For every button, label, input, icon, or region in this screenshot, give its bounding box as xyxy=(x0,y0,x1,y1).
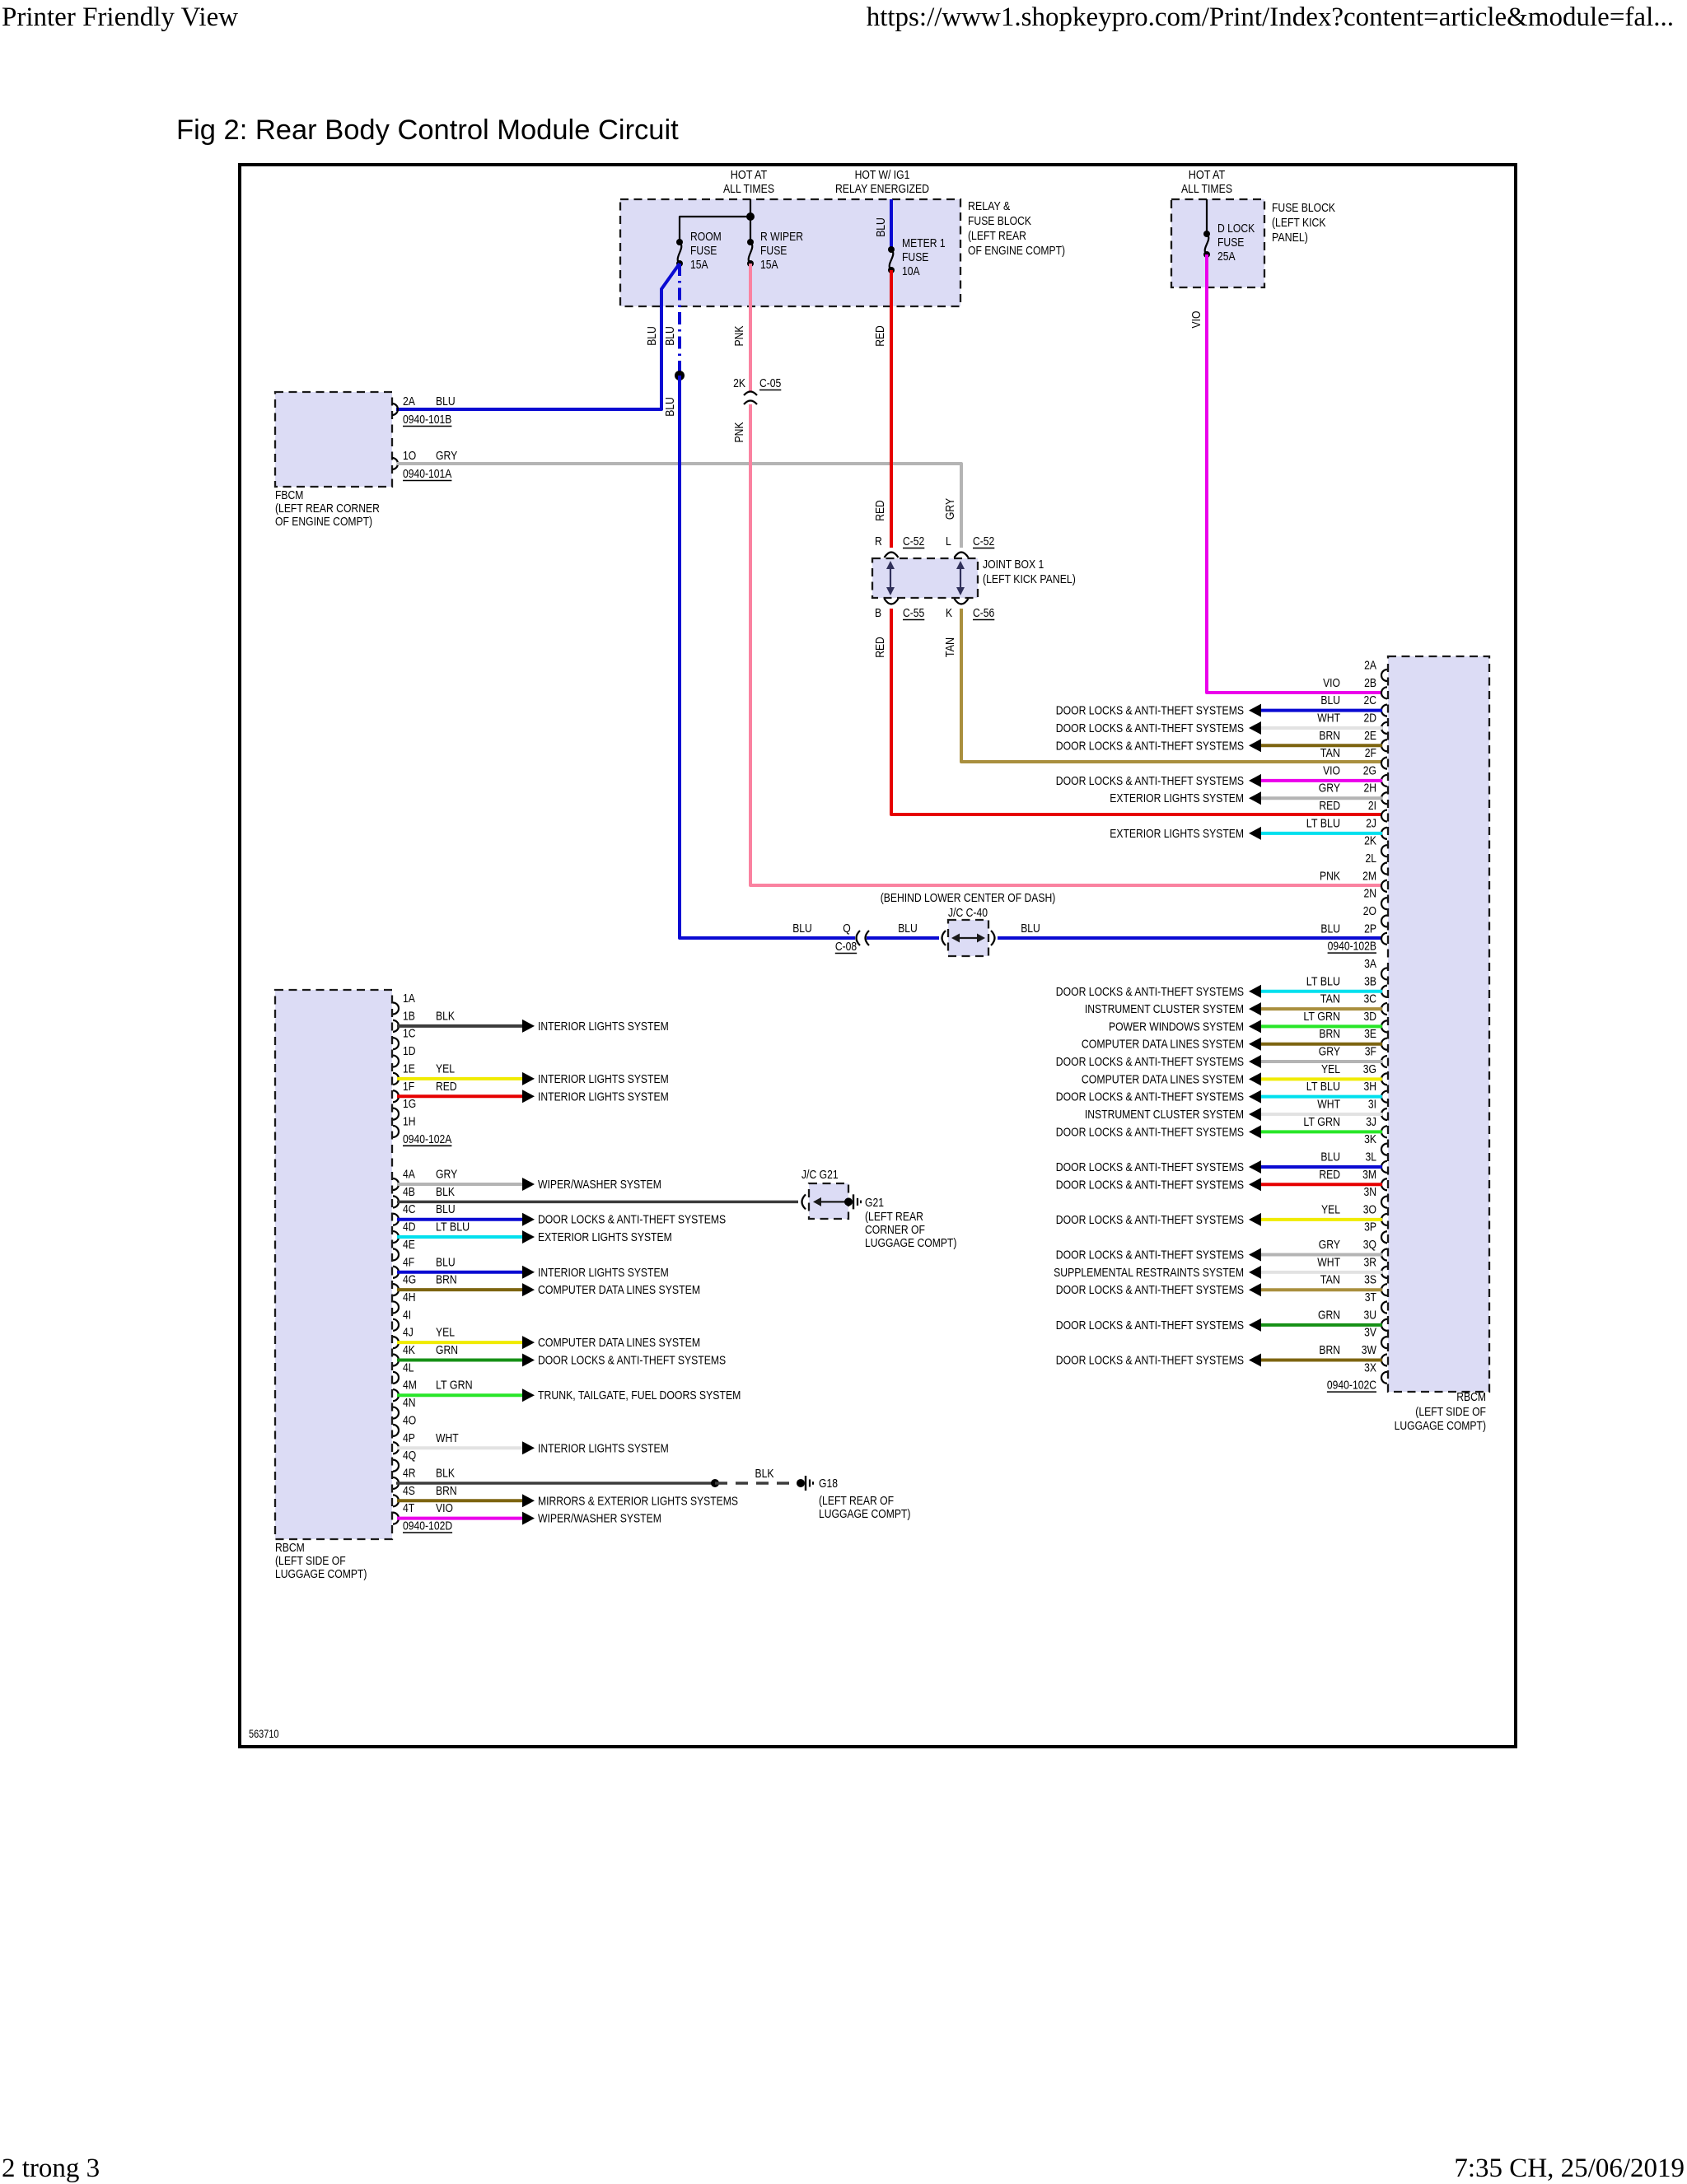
svg-text:(BEHIND LOWER CENTER OF DASH): (BEHIND LOWER CENTER OF DASH) xyxy=(881,891,1056,905)
svg-text:2K: 2K xyxy=(1364,834,1376,848)
svg-text:1H: 1H xyxy=(403,1114,416,1128)
svg-text:3C: 3C xyxy=(1364,992,1377,1006)
svg-text:2M: 2M xyxy=(1362,869,1376,883)
svg-text:WIPER/WASHER SYSTEM: WIPER/WASHER SYSTEM xyxy=(538,1178,661,1192)
svg-text:1B: 1B xyxy=(403,1009,415,1023)
svg-text:FUSE: FUSE xyxy=(760,244,787,258)
wire BLU long vertical to J/C C-40 run xyxy=(680,376,855,938)
svg-text:LUGGAGE COMPT): LUGGAGE COMPT) xyxy=(865,1236,956,1250)
svg-text:GRY: GRY xyxy=(1319,1238,1340,1252)
svg-text:INSTRUMENT CLUSTER SYSTEM: INSTRUMENT CLUSTER SYSTEM xyxy=(1085,1002,1244,1016)
svg-text:BLK: BLK xyxy=(436,1185,455,1199)
svg-text:1D: 1D xyxy=(403,1044,416,1058)
svg-text:OF ENGINE COMPT): OF ENGINE COMPT) xyxy=(275,515,372,529)
J/C G21 internal ground arrow xyxy=(816,1201,846,1202)
svg-text:G21: G21 xyxy=(865,1196,884,1210)
svg-text:4F: 4F xyxy=(403,1255,414,1269)
svg-text:BLU: BLU xyxy=(1320,922,1340,936)
svg-text:FUSE BLOCK: FUSE BLOCK xyxy=(1272,201,1335,215)
diagram frame xyxy=(240,165,1516,1747)
svg-text:3P: 3P xyxy=(1364,1220,1376,1234)
svg-text:2F: 2F xyxy=(1365,746,1376,760)
svg-text:3U: 3U xyxy=(1364,1308,1377,1322)
wire PNK upper segment xyxy=(749,264,752,392)
svg-text:C-55: C-55 xyxy=(903,606,924,620)
svg-text:1C: 1C xyxy=(403,1027,416,1041)
svg-text:BLU: BLU xyxy=(663,326,677,346)
svg-text:RED: RED xyxy=(873,500,887,521)
svg-text:BRN: BRN xyxy=(1319,1343,1340,1357)
svg-text:2J: 2J xyxy=(1366,816,1376,830)
svg-text:3S: 3S xyxy=(1364,1273,1376,1287)
svg-text:BLU: BLU xyxy=(436,1255,456,1269)
svg-text:10A: 10A xyxy=(902,264,920,278)
svg-text:RED: RED xyxy=(1319,799,1340,813)
fuse D LOCK FUSE 25A xyxy=(1203,231,1210,237)
svg-text:BRN: BRN xyxy=(436,1273,457,1287)
svg-text:DOOR LOCKS & ANTI-THEFT SYSTEM: DOOR LOCKS & ANTI-THEFT SYSTEMS xyxy=(1056,1055,1244,1069)
svg-text:GRN: GRN xyxy=(436,1343,458,1357)
svg-text:TAN: TAN xyxy=(1320,1273,1340,1287)
svg-text:J/C G21: J/C G21 xyxy=(801,1168,839,1182)
svg-text:1G: 1G xyxy=(403,1097,416,1111)
svg-text:BLU: BLU xyxy=(898,922,918,936)
svg-text:GRY: GRY xyxy=(1319,1045,1340,1059)
wire 4R BLK solid segment xyxy=(396,1482,715,1485)
svg-text:DOOR LOCKS & ANTI-THEFT SYSTEM: DOOR LOCKS & ANTI-THEFT SYSTEMS xyxy=(1056,1090,1244,1104)
svg-text:(LEFT SIDE OF: (LEFT SIDE OF xyxy=(275,1554,346,1568)
svg-text:563710: 563710 xyxy=(249,1728,279,1740)
svg-text:3V: 3V xyxy=(1364,1326,1376,1340)
svg-text:3F: 3F xyxy=(1365,1045,1376,1059)
svg-text:3A: 3A xyxy=(1364,957,1376,971)
svg-text:YEL: YEL xyxy=(1321,1062,1340,1076)
wire BLU dash-dot branch xyxy=(678,264,681,376)
wire 4R BLK dashed segment xyxy=(715,1482,797,1485)
wire RED lower run to pin 2I xyxy=(891,609,1382,814)
svg-text:RBCM: RBCM xyxy=(275,1541,305,1555)
fuse METER 1 FUSE 10A xyxy=(888,246,895,253)
svg-text:BLU: BLU xyxy=(874,217,888,237)
header: page title xyxy=(2,2,238,33)
svg-text:3E: 3E xyxy=(1364,1027,1376,1041)
svg-text:BRN: BRN xyxy=(1319,1027,1340,1041)
svg-text:DOOR LOCKS & ANTI-THEFT SYSTEM: DOOR LOCKS & ANTI-THEFT SYSTEMS xyxy=(538,1213,726,1227)
svg-text:4E: 4E xyxy=(403,1238,415,1252)
svg-text:TAN: TAN xyxy=(1320,746,1340,760)
wire BLU solid from ROOM fuse to FBCM 2A xyxy=(396,264,680,409)
svg-text:INTERIOR LIGHTS SYSTEM: INTERIOR LIGHTS SYSTEM xyxy=(538,1072,669,1086)
svg-text:1O: 1O xyxy=(403,449,416,463)
svg-text:J/C C-40: J/C C-40 xyxy=(948,906,988,920)
svg-text:3B: 3B xyxy=(1364,974,1376,988)
svg-text:LUGGAGE COMPT): LUGGAGE COMPT) xyxy=(1395,1419,1486,1433)
svg-text:3D: 3D xyxy=(1364,1010,1377,1024)
svg-text:DOOR LOCKS & ANTI-THEFT SYSTEM: DOOR LOCKS & ANTI-THEFT SYSTEMS xyxy=(1056,1353,1244,1367)
ground G21 symbol xyxy=(844,1197,853,1206)
svg-text:0940-102A: 0940-102A xyxy=(403,1132,451,1146)
svg-text:2C: 2C xyxy=(1364,693,1377,707)
svg-text:4D: 4D xyxy=(403,1220,416,1234)
svg-text:BLU: BLU xyxy=(1320,693,1340,707)
svg-text:DOOR LOCKS & ANTI-THEFT SYSTEM: DOOR LOCKS & ANTI-THEFT SYSTEMS xyxy=(1056,1318,1244,1332)
inline connector C-08 xyxy=(857,931,861,945)
svg-text:4P: 4P xyxy=(403,1431,415,1445)
connector arc B C-55 xyxy=(885,599,899,604)
svg-text:OF ENGINE COMPT): OF ENGINE COMPT) xyxy=(968,244,1065,258)
svg-text:D LOCK: D LOCK xyxy=(1217,222,1255,236)
svg-text:0940-102D: 0940-102D xyxy=(403,1519,452,1533)
svg-text:3W: 3W xyxy=(1362,1343,1377,1357)
svg-text:LT BLU: LT BLU xyxy=(436,1220,470,1234)
svg-text:BLK: BLK xyxy=(436,1466,455,1480)
svg-text:ALL TIMES: ALL TIMES xyxy=(1181,182,1232,196)
svg-text:LT BLU: LT BLU xyxy=(1306,1080,1340,1094)
joint box internal arrow (right) xyxy=(960,562,961,594)
svg-text:(LEFT SIDE OF: (LEFT SIDE OF xyxy=(1415,1405,1486,1419)
svg-text:K: K xyxy=(946,606,952,620)
svg-text:GRN: GRN xyxy=(1318,1308,1340,1322)
wire RED upper segment to joint box xyxy=(890,270,893,548)
svg-text:(LEFT KICK PANEL): (LEFT KICK PANEL) xyxy=(983,572,1076,586)
svg-text:RBCM: RBCM xyxy=(1456,1390,1486,1404)
svg-text:2G: 2G xyxy=(1363,763,1376,777)
svg-text:METER 1: METER 1 xyxy=(902,236,946,250)
svg-text:BLU: BLU xyxy=(436,394,456,408)
svg-text:3T: 3T xyxy=(1365,1290,1376,1304)
svg-text:15A: 15A xyxy=(690,258,708,272)
wire hot feed into kick fuse block xyxy=(1206,199,1208,234)
svg-text:DOOR LOCKS & ANTI-THEFT SYSTEM: DOOR LOCKS & ANTI-THEFT SYSTEMS xyxy=(1056,704,1244,718)
joint box 1 xyxy=(872,558,978,598)
svg-text:FUSE: FUSE xyxy=(902,250,928,264)
svg-text:3Q: 3Q xyxy=(1363,1238,1376,1252)
svg-text:BRN: BRN xyxy=(436,1484,457,1498)
svg-text:4O: 4O xyxy=(403,1413,416,1427)
svg-text:BLU: BLU xyxy=(645,326,659,346)
svg-text:4C: 4C xyxy=(403,1202,416,1216)
svg-text:4H: 4H xyxy=(403,1290,416,1304)
svg-text:VIO: VIO xyxy=(436,1501,453,1515)
svg-text:C-56: C-56 xyxy=(973,606,994,620)
fuse block (left kick panel) box xyxy=(1171,199,1264,287)
svg-text:2B: 2B xyxy=(1364,676,1376,690)
svg-text:GRY: GRY xyxy=(436,1168,457,1182)
svg-text:INTERIOR LIGHTS SYSTEM: INTERIOR LIGHTS SYSTEM xyxy=(538,1090,669,1104)
svg-text:RED: RED xyxy=(1319,1168,1340,1182)
svg-text:RELAY ENERGIZED: RELAY ENERGIZED xyxy=(835,182,929,196)
svg-text:CORNER OF: CORNER OF xyxy=(865,1223,925,1237)
footer: page number xyxy=(2,2154,100,2184)
J/C G21 box xyxy=(809,1183,848,1219)
inline connector C-05 on PNK wire xyxy=(744,392,757,396)
svg-text:RED: RED xyxy=(436,1080,457,1094)
connector arc K C-56 xyxy=(955,599,969,604)
junction dot BLU splice xyxy=(675,371,685,380)
svg-text:LUGGAGE COMPT): LUGGAGE COMPT) xyxy=(819,1507,910,1521)
junction node feed split xyxy=(746,212,755,221)
svg-text:JOINT BOX 1: JOINT BOX 1 xyxy=(983,558,1044,572)
svg-text:1F: 1F xyxy=(403,1080,414,1094)
svg-text:BLU: BLU xyxy=(663,397,677,417)
fuse R WIPER FUSE 15A xyxy=(747,239,754,245)
svg-text:GRY: GRY xyxy=(1319,782,1340,796)
svg-text:4N: 4N xyxy=(403,1396,416,1410)
svg-text:(LEFT KICK: (LEFT KICK xyxy=(1272,216,1326,230)
svg-text:RED: RED xyxy=(873,637,887,658)
J/C C-40 box xyxy=(948,920,988,956)
svg-text:4T: 4T xyxy=(403,1501,414,1515)
svg-text:DOOR LOCKS & ANTI-THEFT SYSTEM: DOOR LOCKS & ANTI-THEFT SYSTEMS xyxy=(1056,985,1244,999)
wire crossing patch PNK over GRY xyxy=(749,455,752,472)
svg-text:TAN: TAN xyxy=(1320,992,1340,1006)
svg-text:(LEFT REAR CORNER: (LEFT REAR CORNER xyxy=(275,502,380,516)
FBCM pin 2A arc xyxy=(392,404,398,415)
svg-text:DOOR LOCKS & ANTI-THEFT SYSTEM: DOOR LOCKS & ANTI-THEFT SYSTEMS xyxy=(1056,1125,1244,1139)
footer: date xyxy=(1454,2154,1685,2184)
svg-text:HOT W/ IG1: HOT W/ IG1 xyxy=(855,168,910,182)
header: URL xyxy=(867,2,1674,33)
svg-text:DOOR LOCKS & ANTI-THEFT SYSTEM: DOOR LOCKS & ANTI-THEFT SYSTEMS xyxy=(1056,1178,1244,1192)
wire BLU into METER 1 fuse xyxy=(890,199,893,250)
wire GRY from FBCM 1O to joint box xyxy=(397,464,961,548)
svg-text:LT GRN: LT GRN xyxy=(1303,1010,1340,1024)
svg-text:L: L xyxy=(946,534,951,548)
svg-text:4I: 4I xyxy=(403,1308,411,1322)
connector arc R C-52 xyxy=(885,553,899,558)
svg-text:PNK: PNK xyxy=(732,422,746,443)
svg-text:Q: Q xyxy=(843,922,851,936)
svg-text:LT BLU: LT BLU xyxy=(1306,816,1340,830)
joint box internal arrow (left) xyxy=(890,562,891,594)
svg-text:(LEFT REAR OF: (LEFT REAR OF xyxy=(819,1494,894,1508)
svg-text:HOT AT: HOT AT xyxy=(731,168,768,182)
wire BLU middle segment xyxy=(867,936,939,940)
J/C C-40 entry arc xyxy=(942,931,946,945)
svg-text:0940-102C: 0940-102C xyxy=(1327,1379,1376,1393)
svg-text:C-05: C-05 xyxy=(759,376,781,390)
svg-text:2O: 2O xyxy=(1363,904,1376,918)
svg-text:POWER WINDOWS SYSTEM: POWER WINDOWS SYSTEM xyxy=(1109,1020,1244,1034)
svg-text:4A: 4A xyxy=(403,1168,415,1182)
figure title xyxy=(176,114,679,147)
svg-text:HOT AT: HOT AT xyxy=(1189,168,1226,182)
svg-text:LUGGAGE COMPT): LUGGAGE COMPT) xyxy=(275,1567,367,1581)
wire crossing patch RED over GRY xyxy=(890,455,893,472)
RBCM right connector box xyxy=(1388,656,1489,1392)
svg-text:0940-102B: 0940-102B xyxy=(1328,940,1376,954)
svg-text:4S: 4S xyxy=(403,1484,415,1498)
svg-text:VIO: VIO xyxy=(1189,311,1203,329)
J/C C-40 exit arc xyxy=(991,931,995,945)
svg-text:WHT: WHT xyxy=(1317,1255,1340,1269)
svg-text:COMPUTER DATA LINES SYSTEM: COMPUTER DATA LINES SYSTEM xyxy=(538,1283,700,1297)
svg-text:SUPPLEMENTAL RESTRAINTS SYSTEM: SUPPLEMENTAL RESTRAINTS SYSTEM xyxy=(1054,1266,1244,1280)
svg-text:YEL: YEL xyxy=(436,1326,455,1340)
svg-text:PNK: PNK xyxy=(1320,869,1340,883)
J/C G21 entry arc xyxy=(802,1194,806,1209)
svg-text:G18: G18 xyxy=(819,1477,838,1491)
svg-text:EXTERIOR LIGHTS SYSTEM: EXTERIOR LIGHTS SYSTEM xyxy=(1110,827,1244,841)
svg-text:WIPER/WASHER SYSTEM: WIPER/WASHER SYSTEM xyxy=(538,1512,661,1526)
wire branch to ROOM fuse xyxy=(680,217,750,242)
wire 4B BLK to J/C G21 xyxy=(397,1201,798,1204)
svg-text:R WIPER: R WIPER xyxy=(760,230,803,244)
svg-text:3N: 3N xyxy=(1364,1185,1377,1199)
relay & fuse block box xyxy=(620,199,960,306)
svg-text:2D: 2D xyxy=(1364,711,1377,725)
svg-text:ROOM: ROOM xyxy=(690,230,722,244)
svg-text:BLK: BLK xyxy=(436,1009,455,1023)
svg-text:INTERIOR LIGHTS SYSTEM: INTERIOR LIGHTS SYSTEM xyxy=(538,1441,669,1455)
connector arc L C-52 xyxy=(955,553,969,558)
svg-text:3G: 3G xyxy=(1363,1062,1376,1076)
svg-text:LT GRN: LT GRN xyxy=(436,1379,473,1393)
wire TAN from joint box to pin 2F xyxy=(961,609,1382,762)
svg-text:1E: 1E xyxy=(403,1062,415,1076)
svg-text:EXTERIOR LIGHTS SYSTEM: EXTERIOR LIGHTS SYSTEM xyxy=(1110,791,1244,805)
svg-text:BLU: BLU xyxy=(436,1202,456,1216)
svg-text:4Q: 4Q xyxy=(403,1449,416,1463)
svg-text:PANEL): PANEL) xyxy=(1272,231,1308,245)
svg-text:2K: 2K xyxy=(733,376,745,390)
svg-text:3I: 3I xyxy=(1368,1098,1376,1112)
svg-text:2E: 2E xyxy=(1364,729,1376,743)
svg-text:3L: 3L xyxy=(1366,1150,1377,1164)
svg-text:FUSE: FUSE xyxy=(1217,236,1244,250)
svg-text:INTERIOR LIGHTS SYSTEM: INTERIOR LIGHTS SYSTEM xyxy=(538,1020,669,1034)
wire hot feed into fuse block xyxy=(750,199,751,242)
svg-text:3J: 3J xyxy=(1366,1115,1376,1129)
svg-text:DOOR LOCKS & ANTI-THEFT SYSTEM: DOOR LOCKS & ANTI-THEFT SYSTEMS xyxy=(1056,1283,1244,1297)
svg-text:3R: 3R xyxy=(1364,1255,1377,1269)
svg-text:DOOR LOCKS & ANTI-THEFT SYSTEM: DOOR LOCKS & ANTI-THEFT SYSTEMS xyxy=(1056,1248,1244,1262)
svg-text:C-08: C-08 xyxy=(835,940,857,954)
svg-text:TRUNK, TAILGATE, FUEL DOORS SY: TRUNK, TAILGATE, FUEL DOORS SYSTEM xyxy=(538,1388,741,1402)
svg-text:BLU: BLU xyxy=(1320,1150,1340,1164)
svg-text:2A: 2A xyxy=(403,394,415,408)
svg-text:4G: 4G xyxy=(403,1273,416,1287)
wire PNK lower run to pin 2M xyxy=(750,404,1382,885)
svg-text:1A: 1A xyxy=(403,992,415,1006)
svg-text:4R: 4R xyxy=(403,1466,416,1480)
svg-text:3M: 3M xyxy=(1362,1168,1376,1182)
svg-text:2H: 2H xyxy=(1364,782,1377,796)
wire crossing patch BLU over GRY xyxy=(678,455,681,472)
svg-text:15A: 15A xyxy=(760,258,778,272)
svg-text:PNK: PNK xyxy=(732,326,746,347)
svg-text:DOOR LOCKS & ANTI-THEFT SYSTEM: DOOR LOCKS & ANTI-THEFT SYSTEMS xyxy=(1056,1160,1244,1174)
svg-text:4L: 4L xyxy=(403,1360,414,1374)
svg-text:GRY: GRY xyxy=(943,498,957,520)
svg-text:MIRRORS & EXTERIOR LIGHTS SYST: MIRRORS & EXTERIOR LIGHTS SYSTEMS xyxy=(538,1494,738,1508)
svg-text:(LEFT REAR: (LEFT REAR xyxy=(968,229,1026,243)
svg-text:VIO: VIO xyxy=(1323,676,1340,690)
svg-text:COMPUTER DATA LINES SYSTEM: COMPUTER DATA LINES SYSTEM xyxy=(538,1336,700,1350)
svg-text:BLU: BLU xyxy=(792,922,812,936)
svg-text:INTERIOR LIGHTS SYSTEM: INTERIOR LIGHTS SYSTEM xyxy=(538,1266,669,1280)
svg-text:B: B xyxy=(875,606,881,620)
svg-text:2P: 2P xyxy=(1364,922,1376,936)
svg-text:RED: RED xyxy=(873,325,887,347)
wire BLU to pin 2P xyxy=(998,936,1382,940)
svg-text:4M: 4M xyxy=(403,1379,417,1393)
svg-text:2L: 2L xyxy=(1366,852,1377,866)
svg-text:3K: 3K xyxy=(1364,1132,1376,1146)
svg-text:COMPUTER DATA LINES SYSTEM: COMPUTER DATA LINES SYSTEM xyxy=(1082,1038,1244,1052)
svg-text:BRN: BRN xyxy=(1319,729,1340,743)
fuse ROOM FUSE 15A xyxy=(676,239,683,245)
svg-text:INSTRUMENT CLUSTER SYSTEM: INSTRUMENT CLUSTER SYSTEM xyxy=(1085,1108,1244,1122)
svg-text:BLU: BLU xyxy=(1021,922,1040,936)
svg-text:4B: 4B xyxy=(403,1185,415,1199)
svg-text:FBCM: FBCM xyxy=(275,488,303,502)
svg-text:3H: 3H xyxy=(1364,1080,1377,1094)
svg-text:EXTERIOR LIGHTS SYSTEM: EXTERIOR LIGHTS SYSTEM xyxy=(538,1230,672,1244)
svg-text:C-52: C-52 xyxy=(973,534,994,548)
svg-text:DOOR LOCKS & ANTI-THEFT SYSTEM: DOOR LOCKS & ANTI-THEFT SYSTEMS xyxy=(538,1354,726,1368)
svg-text:ALL TIMES: ALL TIMES xyxy=(723,182,774,196)
svg-text:C-52: C-52 xyxy=(903,534,924,548)
svg-text:2I: 2I xyxy=(1368,799,1376,813)
svg-text:DOOR LOCKS & ANTI-THEFT SYSTEM: DOOR LOCKS & ANTI-THEFT SYSTEMS xyxy=(1056,721,1244,735)
svg-text:LT BLU: LT BLU xyxy=(1306,974,1340,988)
svg-text:3X: 3X xyxy=(1364,1360,1376,1374)
splice dot 4R xyxy=(711,1479,719,1487)
ground G18 symbol xyxy=(797,1479,805,1487)
svg-text:3O: 3O xyxy=(1363,1202,1376,1216)
svg-text:DOOR LOCKS & ANTI-THEFT SYSTEM: DOOR LOCKS & ANTI-THEFT SYSTEMS xyxy=(1056,1213,1244,1227)
svg-text:BLK: BLK xyxy=(755,1467,774,1481)
svg-text:COMPUTER DATA LINES SYSTEM: COMPUTER DATA LINES SYSTEM xyxy=(1082,1072,1244,1086)
svg-text:0940-101B: 0940-101B xyxy=(403,413,451,427)
svg-text:FUSE: FUSE xyxy=(690,244,717,258)
svg-text:FUSE BLOCK: FUSE BLOCK xyxy=(968,214,1031,228)
svg-text:LT GRN: LT GRN xyxy=(1303,1115,1340,1129)
svg-text:4K: 4K xyxy=(403,1343,415,1357)
svg-text:WHT: WHT xyxy=(1317,1098,1340,1112)
FBCM connector box xyxy=(275,392,392,487)
svg-text:0940-101A: 0940-101A xyxy=(403,467,451,481)
wire VIO to RBCM pin 2B xyxy=(1207,254,1382,693)
svg-text:DOOR LOCKS & ANTI-THEFT SYSTEM: DOOR LOCKS & ANTI-THEFT SYSTEMS xyxy=(1056,739,1244,753)
svg-text:YEL: YEL xyxy=(1321,1202,1340,1216)
svg-text:(LEFT REAR: (LEFT REAR xyxy=(865,1210,923,1224)
RBCM left connector box xyxy=(275,990,392,1539)
svg-text:R: R xyxy=(875,534,882,548)
svg-text:DOOR LOCKS & ANTI-THEFT SYSTEM: DOOR LOCKS & ANTI-THEFT SYSTEMS xyxy=(1056,774,1244,788)
svg-text:YEL: YEL xyxy=(436,1062,455,1076)
svg-text:WHT: WHT xyxy=(436,1431,459,1445)
svg-text:TAN: TAN xyxy=(943,637,957,657)
svg-text:2A: 2A xyxy=(1364,659,1376,673)
svg-text:25A: 25A xyxy=(1217,250,1236,264)
svg-text:GRY: GRY xyxy=(436,449,457,463)
svg-text:2N: 2N xyxy=(1364,887,1377,901)
svg-text:VIO: VIO xyxy=(1323,763,1340,777)
FBCM pin 1O arc xyxy=(392,458,398,469)
svg-text:4J: 4J xyxy=(403,1326,414,1340)
svg-text:WHT: WHT xyxy=(1317,711,1340,725)
svg-text:RELAY &: RELAY & xyxy=(968,199,1010,213)
J/C C-40 internal arrow xyxy=(953,937,984,939)
